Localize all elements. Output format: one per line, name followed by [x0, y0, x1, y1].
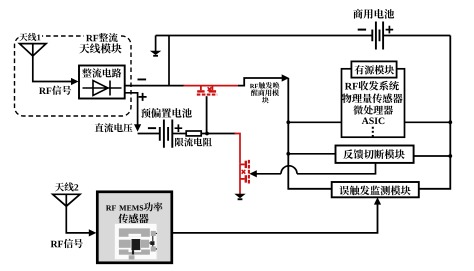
resistor R1 限流电阻	[186, 131, 201, 136]
label 醒商用模 (line2)	[251, 89, 258, 96]
wire sensor to monitor module	[173, 203, 378, 233]
junction dot rightbus-feedback	[448, 154, 452, 158]
label RF信号 (antenna2)	[51, 241, 58, 247]
label ASIC	[362, 118, 369, 124]
MEMS die image	[115, 224, 158, 260]
wire antenna1 to rectifier	[33, 55, 72, 82]
wire left bus	[288, 78, 332, 189]
ground symbol (top left)	[150, 51, 161, 55]
wire bus to feedback module	[288, 153, 335, 155]
arrow into rectifier	[71, 78, 79, 85]
label plus (battery B1)	[175, 124, 183, 132]
label 直流电压	[95, 123, 104, 132]
label RF整流 backing	[84, 32, 120, 42]
label 天线2	[55, 183, 64, 192]
wire plus output	[125, 93, 138, 126]
antenna ANT1	[20, 44, 47, 56]
wire feedback module to right bus	[414, 155, 451, 157]
wire antenna2 to sensor	[66, 205, 89, 233]
battery B2 商用电池	[372, 22, 383, 50]
label 有源模块	[355, 65, 364, 74]
label box 有源模块	[351, 61, 396, 77]
arrow down to DC node	[134, 124, 141, 131]
ground stem	[155, 36, 157, 52]
wire resistor to node	[201, 133, 235, 135]
arrow into wake-up node	[282, 74, 290, 81]
label 天线1	[19, 33, 27, 41]
label 块 (line3)	[262, 97, 269, 104]
label 反馈切断模块	[343, 149, 353, 159]
label RF收发系统	[345, 83, 352, 90]
wire DC node to battery	[138, 133, 160, 135]
label minus (rectifier out)	[138, 79, 147, 81]
wire battery to resistor	[172, 133, 186, 135]
label RF整流	[86, 35, 93, 41]
ellipsis dots	[372, 127, 374, 137]
wire top rail left	[156, 35, 373, 37]
label 误触发监测模块	[339, 186, 349, 196]
label 微处理器	[353, 105, 363, 114]
wire gate Q2 to hop	[255, 173, 281, 175]
label 传感器	[118, 214, 128, 224]
arrow into sensor	[89, 229, 97, 236]
battery B1 预偏置电池	[160, 120, 173, 148]
wire bus to active module	[288, 121, 341, 123]
transistor Q2 (red MOSFET)	[240, 160, 249, 194]
wire active module to right bus	[405, 121, 451, 123]
wire hop over vertical bus	[281, 166, 297, 174]
wire top rail right	[383, 35, 450, 37]
label 天线模块	[79, 44, 89, 54]
wire vertical join (rail to minus wire)	[168, 36, 170, 86]
wire drain Q1 (red)	[184, 85, 239, 87]
label 预偏置电池	[141, 108, 151, 118]
wire gate of Q1	[206, 96, 208, 133]
label RF信号 (antenna1)	[39, 88, 46, 94]
module box: RF rectifier antenna module (dashed)	[15, 36, 132, 116]
label RF MEMS功率	[106, 205, 112, 210]
label minus (battery B1)	[148, 127, 156, 129]
module box 有源模块	[342, 69, 405, 137]
arrow into gate Q2	[249, 170, 256, 177]
antenna ANT2	[53, 194, 80, 206]
wire rectifier minus output	[125, 85, 185, 87]
wire node to Q2 drain (red)	[235, 134, 241, 164]
transistor Q1 (red MOSFET)	[197, 86, 217, 95]
label 天线1 backing	[19, 32, 43, 42]
label plus (battery B2)	[386, 26, 394, 34]
label minus (battery B2)	[358, 29, 366, 31]
wire right bus	[419, 36, 451, 189]
module box 反馈切断模块	[336, 146, 414, 163]
diode D1	[83, 81, 122, 96]
rectifier box 整流电路	[79, 66, 125, 99]
label 物理量传感器	[342, 94, 352, 104]
junction dot bus-feedback	[286, 152, 290, 156]
label 商用电池	[353, 9, 363, 19]
label 限流电阻	[175, 138, 184, 147]
module box 误触发监测模块	[332, 182, 419, 197]
junction dot (gate1 node)	[205, 132, 209, 136]
ground symbol (below Q2)	[234, 194, 245, 198]
label RF触发唤 (line1)	[250, 84, 255, 88]
arrow into monitor module	[374, 197, 381, 204]
label 整流电路	[82, 68, 92, 77]
wire source Q1 to arrow	[238, 78, 283, 86]
junction dot rightbus-active	[448, 120, 452, 124]
wire hop to feedback module	[297, 162, 376, 174]
sensor box RF MEMS功率传感器	[97, 192, 172, 263]
junction dot bus-active	[286, 120, 290, 124]
label plus (rectifier out)	[139, 93, 147, 101]
